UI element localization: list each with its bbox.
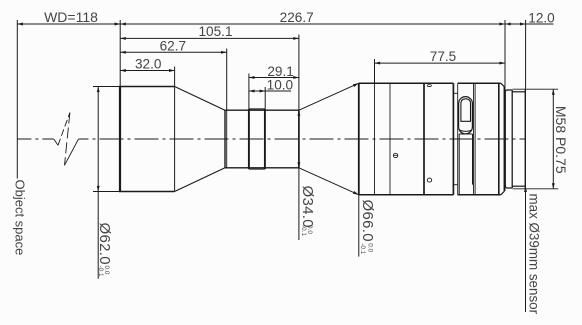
- thread section M58: [512, 89, 558, 189]
- svg-text:-0.1: -0.1: [97, 266, 104, 277]
- arrow cone bottom (phi66 dim): [353, 191, 359, 195]
- phi62: [97, 87, 100, 93]
- rear ring boundaries: [474, 83, 476, 195]
- 105.1: [120, 37, 126, 40]
- arrowheads: [17, 23, 554, 192]
- svg-text:max Ø39mm sensor: max Ø39mm sensor: [527, 194, 542, 315]
- svg-text:105.1: 105.1: [198, 24, 232, 39]
- 10.0: [249, 90, 255, 93]
- dot top of ring: [427, 85, 431, 87]
- lock screw: [461, 99, 471, 122]
- svg-text:32.0: 32.0: [135, 56, 162, 71]
- dim 62.7: [120, 51, 227, 53]
- arrow cone top (phi66 dim): [353, 83, 359, 87]
- barrel end face: [504, 87, 506, 191]
- dot bottom of ring: [427, 178, 431, 182]
- rear lip ring: [505, 90, 512, 188]
- lower slot: [459, 134, 472, 194]
- M58: [552, 89, 555, 95]
- phi62 dim line: [97, 87, 99, 279]
- mid section body: [225, 110, 299, 168]
- top dim row: [17, 23, 553, 25]
- svg-text:WD=118: WD=118: [44, 9, 98, 25]
- cone front to mid: [175, 87, 225, 192]
- svg-text:0.0: 0.0: [366, 243, 373, 252]
- mid ring: [249, 109, 265, 169]
- 29.1: [249, 76, 255, 79]
- svg-text:Object space: Object space: [12, 180, 27, 256]
- 226.7 arrows: [120, 23, 126, 26]
- 77.5: [375, 62, 381, 65]
- rotated labels: [96, 186, 376, 265]
- svg-text:10.0: 10.0: [267, 77, 294, 92]
- dim 32.0: [120, 70, 174, 72]
- svg-text:62.7: 62.7: [160, 38, 186, 53]
- svg-text:M58 P0.75: M58 P0.75: [553, 106, 569, 174]
- phi34: [297, 110, 300, 116]
- screw dot on barrel: [393, 153, 397, 157]
- 12.0 arrows: [505, 23, 511, 26]
- 32.0: [120, 69, 126, 72]
- M58 dim line: [552, 89, 554, 189]
- svg-text:77.5: 77.5: [430, 49, 456, 64]
- svg-text:Ø34.0: Ø34.0: [299, 186, 316, 228]
- cone mid to barrel: [299, 83, 359, 195]
- window inner arc: [460, 130, 472, 131]
- lock screw window: [459, 97, 473, 134]
- break zigzag: [54, 113, 79, 166]
- front cylinder body: [119, 87, 175, 192]
- groove near 455: [453, 83, 457, 195]
- main barrel phi66: [359, 83, 501, 195]
- svg-text:Ø62.0: Ø62.0: [96, 223, 113, 265]
- svg-text:Ø66.0: Ø66.0: [359, 200, 376, 242]
- sensor leader: [525, 186, 527, 312]
- dim 10.0: [249, 90, 291, 92]
- dim 77.5: [375, 62, 506, 64]
- object plane line: [16, 20, 18, 179]
- svg-text:-0.1: -0.1: [359, 243, 366, 254]
- phi34 ext below: [298, 168, 300, 240]
- svg-text:226.7: 226.7: [280, 10, 314, 25]
- extension lines vertical: [119, 20, 121, 87]
- 62.7: [120, 51, 126, 54]
- sensor: [524, 186, 527, 192]
- phi66 ext below: [358, 195, 360, 257]
- svg-text:-0.1: -0.1: [300, 225, 307, 236]
- dim 29.1: [249, 77, 299, 79]
- svg-text:12.0: 12.0: [528, 10, 555, 25]
- dim 105.1: [120, 37, 299, 39]
- WD arrows: [17, 23, 23, 26]
- barrel end chamfer: [501, 83, 505, 195]
- centerline: [17, 138, 525, 140]
